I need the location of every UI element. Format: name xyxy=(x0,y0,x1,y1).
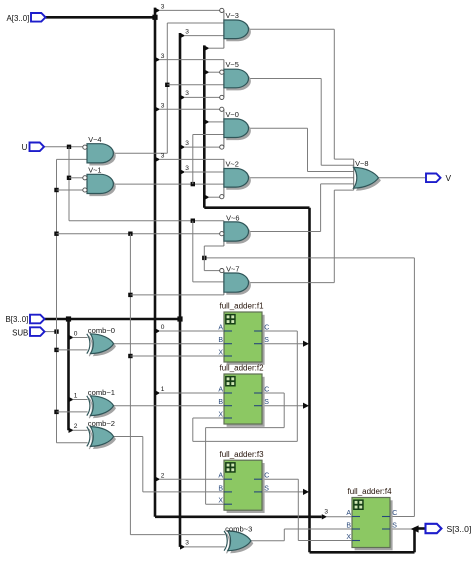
wire carry vertical stub xyxy=(203,246,205,271)
wire B bus left branch vertical xyxy=(67,319,70,430)
svg-text:C: C xyxy=(264,324,269,331)
wire V~2 output xyxy=(248,177,354,179)
svg-text:C: C xyxy=(392,510,397,517)
wire carry to V~7 input 1 xyxy=(204,270,219,272)
svg-text:3: 3 xyxy=(161,103,165,110)
bus tap S[3] to V~2 xyxy=(204,195,219,200)
wire A bus horizontal to f4 xyxy=(155,515,322,518)
wire S bus to S pin xyxy=(415,527,427,530)
wire comb~0 output to f1 B xyxy=(114,343,224,345)
svg-text:C: C xyxy=(264,386,269,393)
svg-text:3: 3 xyxy=(324,508,328,515)
wire SUB horizontal to V~6 xyxy=(57,233,220,235)
AND gate V~0 xyxy=(220,107,251,149)
svg-text:comb~3: comb~3 xyxy=(225,524,252,533)
wire V~5 output xyxy=(248,79,354,166)
wire SUB to comb~2 input 2 xyxy=(57,442,88,444)
node U junction 3 xyxy=(191,219,195,223)
svg-text:V~2: V~2 xyxy=(226,160,239,169)
OR gate V~8 xyxy=(354,159,381,191)
wire SUB branch to comb~3 xyxy=(130,534,225,536)
wire V~4 net vertical xyxy=(166,23,168,153)
bus tap S[3] to V~0 xyxy=(204,119,224,124)
input pin B[3..0] xyxy=(5,315,44,324)
node SUB junction east xyxy=(54,232,58,236)
wire f4 C horizontal west xyxy=(204,257,414,259)
wire U branch vertical xyxy=(192,221,194,282)
wire f2 S to S bus xyxy=(262,403,309,409)
AND gate V~3 xyxy=(220,8,251,48)
svg-text:full_adder:f2: full_adder:f2 xyxy=(219,364,264,373)
wire S bus vertical to pin xyxy=(413,529,416,553)
svg-text:B: B xyxy=(218,399,223,406)
wire SUB branch to f1 X xyxy=(130,355,224,357)
bus tap A[3] to f4 xyxy=(322,508,352,519)
svg-text:X: X xyxy=(218,498,223,505)
svg-text:S: S xyxy=(264,399,269,406)
bus tap B[0] to comb~0 xyxy=(69,330,88,340)
wire SUB branch vertical xyxy=(129,234,131,535)
bus tap B[1] to comb~1 xyxy=(69,392,88,402)
wire f3 C to f4 X xyxy=(262,479,352,540)
wire A bus vertical xyxy=(154,8,157,517)
svg-text:comb~0: comb~0 xyxy=(88,326,115,335)
svg-text:S[3..0]: S[3..0] xyxy=(447,524,472,534)
wire SUB vertical xyxy=(56,159,58,442)
svg-text:X: X xyxy=(346,534,351,541)
svg-text:V~1: V~1 xyxy=(88,166,101,175)
wire U vertical xyxy=(68,147,70,221)
wire V~3 output xyxy=(248,29,354,159)
wire V~0 output xyxy=(248,128,354,171)
wire f1 C to f2 X xyxy=(193,331,297,441)
bus tap A[2] to f3 xyxy=(155,472,224,482)
svg-text:3: 3 xyxy=(185,90,189,97)
svg-text:A: A xyxy=(218,473,223,480)
wire A bus from pin xyxy=(46,16,156,19)
svg-text:1: 1 xyxy=(74,392,78,399)
wire f1 S to S bus xyxy=(262,341,309,347)
bus tap B[3] to V~3 xyxy=(180,28,224,38)
wire V~1 net vertical xyxy=(192,135,194,185)
wire comb~1 output to f2 B xyxy=(114,405,224,407)
svg-text:full_adder:f4: full_adder:f4 xyxy=(347,487,392,496)
bus tap S[3] to V~3 xyxy=(204,46,224,51)
svg-text:V~0: V~0 xyxy=(226,110,239,119)
XOR gate comb~1 xyxy=(87,388,116,418)
svg-text:3: 3 xyxy=(185,140,189,147)
svg-text:full_adder:f3: full_adder:f3 xyxy=(219,450,264,459)
output pin S[3..0] xyxy=(426,524,472,534)
svg-text:3: 3 xyxy=(161,53,165,60)
svg-text:comb~2: comb~2 xyxy=(88,419,115,428)
wire V~8 output to V pin xyxy=(379,177,427,179)
wire comb~2 output to f3 B xyxy=(114,437,224,492)
wire S bus horizontal upper xyxy=(204,206,309,209)
svg-text:A: A xyxy=(346,510,351,517)
wire V~1 net to V~0 input 3 xyxy=(193,134,224,136)
svg-text:V~4: V~4 xyxy=(88,135,101,144)
XOR gate comb~2 xyxy=(87,419,116,449)
bus tap A[3] to V~3 xyxy=(155,4,220,14)
svg-text:A: A xyxy=(218,386,223,393)
wire SUB branch to V~7 input 3 xyxy=(130,294,224,296)
bus tap B[3] to comb~3 xyxy=(180,540,225,550)
wire f4 C vertical xyxy=(413,258,415,517)
bus tap A[3] to V~2 xyxy=(155,153,224,163)
wire SUB to V~1 input 2 xyxy=(57,189,84,191)
svg-text:U: U xyxy=(22,143,28,152)
node SUB junction comb~1 xyxy=(54,410,58,414)
bus tap B[3] to V~0 xyxy=(180,140,220,150)
svg-text:V~8: V~8 xyxy=(355,159,368,168)
wire V~4 net to V~3 input 2 xyxy=(167,22,224,24)
svg-text:3: 3 xyxy=(185,28,189,35)
svg-text:S: S xyxy=(392,522,397,529)
bus tap A[3] to V~0 xyxy=(155,103,220,113)
wire S bus vertical right xyxy=(308,208,311,553)
wire U pin to V~4 xyxy=(44,146,83,148)
wire SUB to comb~1 input 2 xyxy=(57,411,88,413)
svg-text:3: 3 xyxy=(161,4,165,11)
wire V~4 output xyxy=(114,152,168,154)
bus tap B[2] to comb~2 xyxy=(69,423,88,433)
node U junction 2 xyxy=(67,176,71,180)
svg-text:3: 3 xyxy=(185,165,189,172)
bus tap B[3] to V~5 xyxy=(180,90,220,100)
svg-text:A: A xyxy=(218,324,223,331)
svg-text:V~3: V~3 xyxy=(226,11,239,20)
svg-text:2: 2 xyxy=(161,472,165,479)
svg-text:B: B xyxy=(346,522,351,529)
AND gate V~5 xyxy=(220,60,251,100)
wire carry to V~6 input 3 xyxy=(204,245,224,247)
node SUB junction pin xyxy=(54,329,58,333)
svg-text:S: S xyxy=(264,337,269,344)
bus tap A[3] to V~5 xyxy=(155,53,224,63)
wire B bus vertical xyxy=(179,33,182,547)
svg-text:V~5: V~5 xyxy=(226,60,239,69)
XOR gate comb~3 xyxy=(224,524,253,553)
output pin V xyxy=(426,173,452,183)
bus tap S[3] to V~5 xyxy=(204,70,219,75)
wire f3 S to S bus xyxy=(262,489,309,495)
wire V~7 output xyxy=(248,190,354,283)
input pin SUB xyxy=(12,327,44,337)
AND gate V~4 xyxy=(83,135,116,166)
svg-text:3: 3 xyxy=(185,540,189,547)
node V~1 net junction xyxy=(191,182,195,186)
full adder f1 xyxy=(218,302,269,365)
node SUB junction branch xyxy=(128,232,132,236)
svg-text:V: V xyxy=(446,173,452,183)
svg-text:A[3..0]: A[3..0] xyxy=(6,14,29,23)
node B bus junction left xyxy=(66,316,71,321)
wire SUB to comb~0 input 2 xyxy=(57,349,88,351)
svg-text:X: X xyxy=(218,411,223,418)
wire V~1 output to V~2 input 3 xyxy=(114,183,224,185)
wire U horizontal to V~6 xyxy=(69,220,224,222)
node U junction 1 xyxy=(67,145,71,149)
node carry junction xyxy=(202,256,206,260)
svg-text:B[3..0]: B[3..0] xyxy=(5,315,28,324)
XOR gate comb~0 xyxy=(87,326,116,356)
svg-text:C: C xyxy=(264,473,269,480)
wire V~4 net to V~5 input 3 xyxy=(167,84,224,86)
bus tap A[1] to f2 xyxy=(155,386,224,396)
svg-text:0: 0 xyxy=(161,324,165,331)
node V~4 net junction xyxy=(165,83,169,87)
wire B bus from pin xyxy=(45,318,181,321)
svg-text:0: 0 xyxy=(74,330,78,337)
full adder f2 xyxy=(218,364,269,427)
bus tap A[0] to f1 xyxy=(155,324,224,334)
node SUB junction f1.X xyxy=(128,354,132,358)
svg-text:V~7: V~7 xyxy=(226,264,239,273)
node A bus junction xyxy=(152,15,157,20)
AND gate V~1 xyxy=(83,166,116,197)
AND gate V~2 xyxy=(220,159,251,199)
wire comb~3 output to f4 B xyxy=(251,529,352,541)
svg-text:S: S xyxy=(264,485,269,492)
svg-text:B: B xyxy=(218,485,223,492)
wire f2 C to f3 X xyxy=(206,393,285,504)
bus tap B[3] to V~2 xyxy=(180,165,224,175)
svg-text:comb~1: comb~1 xyxy=(88,388,115,397)
input pin U xyxy=(22,143,44,152)
wire S bus vertical upper xyxy=(203,45,206,207)
svg-text:X: X xyxy=(218,349,223,356)
AND gate V~7 xyxy=(220,264,251,295)
wire U to V~1 input 1 xyxy=(69,177,83,179)
input pin A[3..0] xyxy=(6,13,45,23)
AND gate V~6 xyxy=(220,213,251,246)
svg-text:2: 2 xyxy=(74,423,78,430)
svg-text:SUB: SUB xyxy=(12,328,28,337)
full adder f3 xyxy=(218,450,269,513)
svg-text:full_adder:f1: full_adder:f1 xyxy=(219,302,264,311)
wire f4 C output xyxy=(390,516,414,518)
node SUB junction V~7 xyxy=(128,293,132,297)
wire SUB to V~4 input 2 xyxy=(57,158,88,160)
svg-text:B: B xyxy=(218,337,223,344)
svg-text:1: 1 xyxy=(161,386,165,393)
wire SUB pin xyxy=(44,331,57,333)
wire U branch to V~7 input 2 xyxy=(193,281,224,283)
node SUB junction V~1 xyxy=(54,188,58,192)
wire f4 S to S bus xyxy=(390,525,419,532)
wire V~6 output xyxy=(248,184,354,232)
svg-text:V~6: V~6 xyxy=(226,213,239,222)
node SUB junction comb~0 xyxy=(54,348,58,352)
full adder f4 xyxy=(346,487,397,550)
node B bus junction right xyxy=(177,316,182,321)
wire S bus horizontal bottom xyxy=(310,551,415,554)
svg-text:3: 3 xyxy=(161,153,165,160)
